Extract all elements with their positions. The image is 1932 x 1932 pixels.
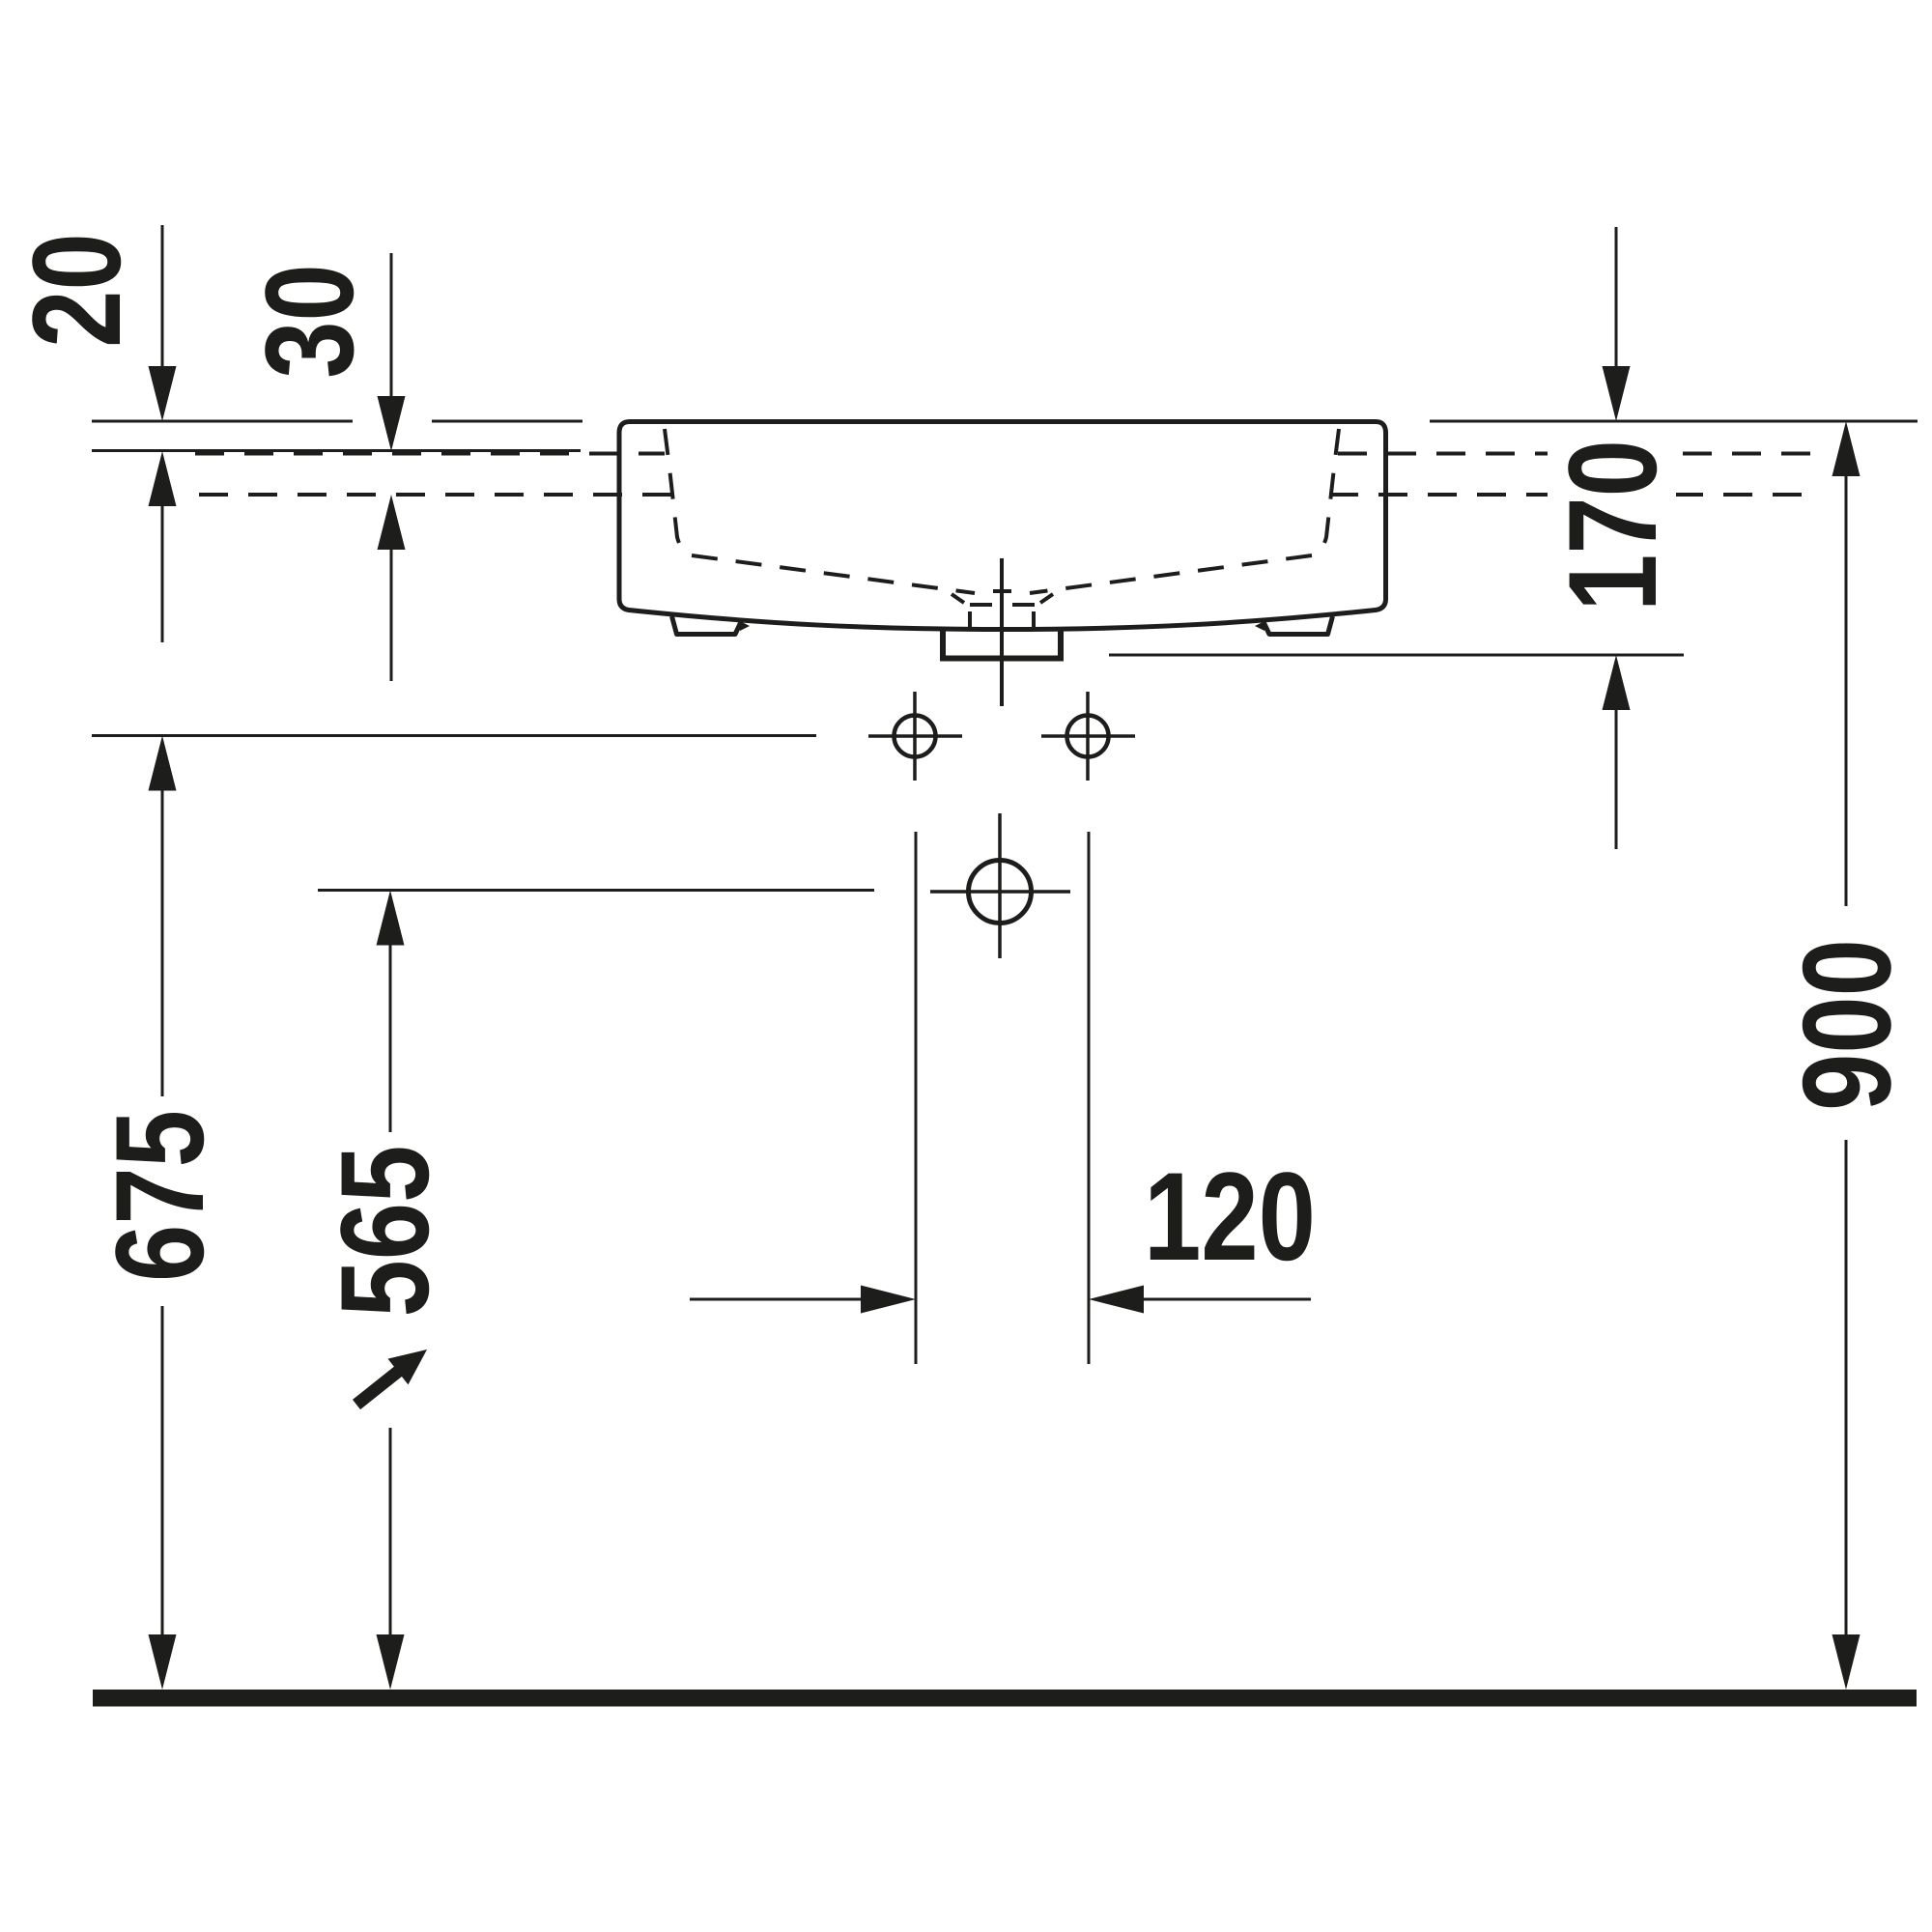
120 dim right vertical line — [1088, 832, 1091, 1364]
dim 170 upper arrow — [1615, 227, 1618, 366]
left tap hole circle — [895, 716, 936, 757]
right foot — [1264, 616, 1333, 635]
svg-text:120: 120 — [1144, 1147, 1316, 1287]
dim 565 lower arrow — [389, 1428, 392, 1634]
svg-text:565: 565 — [315, 1146, 455, 1318]
basin inner bowl dashed left slope — [692, 555, 975, 593]
120 dim left vertical line — [915, 832, 918, 1364]
svg-text:675: 675 — [90, 1110, 230, 1282]
drain flange — [943, 629, 1061, 659]
drain funnel dashes — [952, 594, 1053, 605]
dim 20 lower arrow — [149, 451, 177, 506]
drain pipe stubs — [970, 611, 1034, 629]
dim 30 upper arrow — [390, 253, 393, 396]
dashed hidden edge line y=469.5 — [195, 452, 1814, 456]
svg-text:20: 20 — [7, 233, 147, 348]
dim 30 lower arrow — [378, 495, 406, 550]
basin inner bowl dashed left wall — [665, 429, 692, 555]
dim 675 lower arrow — [161, 1306, 164, 1634]
dim 120 left arrow — [690, 1298, 861, 1301]
mounting hole crosshair — [930, 813, 1070, 958]
dim 675 upper arrow — [149, 736, 177, 791]
extension line big hole y=921.5 — [318, 889, 874, 892]
svg-text:900: 900 — [1776, 939, 1917, 1111]
drain centerline tick — [993, 589, 1011, 593]
washbasin outer outline — [619, 422, 1386, 630]
right foot rear wedge — [1255, 621, 1264, 631]
drain centerline — [1000, 558, 1004, 706]
left foot — [672, 616, 742, 635]
mounting hole circle — [969, 861, 1032, 923]
svg-text:30: 30 — [240, 264, 380, 379]
dim 565 upper arrow — [377, 891, 405, 946]
extension line top rim level y=436 — [92, 420, 1918, 423]
extension line under drain y=678 — [1109, 654, 1684, 657]
extension line tap holes y=761.5 — [92, 734, 816, 737]
label 170 halo — [1548, 433, 1676, 618]
basin inner bowl dashed right wall — [1312, 429, 1339, 555]
dim 900 lower arrow — [1845, 1140, 1848, 1634]
dim 900 upper arrow — [1833, 421, 1861, 476]
dim 20 upper arrow — [161, 225, 164, 366]
extension line lower rim level y=466.5 — [92, 449, 581, 452]
dim 120 right arrow — [1089, 1286, 1144, 1314]
floor line — [93, 1690, 1917, 1707]
right tap hole circle — [1067, 716, 1109, 757]
svg-text:170: 170 — [1543, 440, 1683, 611]
left foot rear wedge — [740, 621, 750, 631]
dashed hidden edge line y=512 — [199, 493, 1814, 497]
basin inner bowl dashed right slope — [1030, 555, 1312, 593]
adjustable height arrow — [356, 1371, 399, 1405]
left tap hole crosshair — [868, 692, 962, 781]
right tap hole crosshair — [1041, 692, 1135, 781]
dim 170 lower arrow — [1603, 655, 1631, 710]
